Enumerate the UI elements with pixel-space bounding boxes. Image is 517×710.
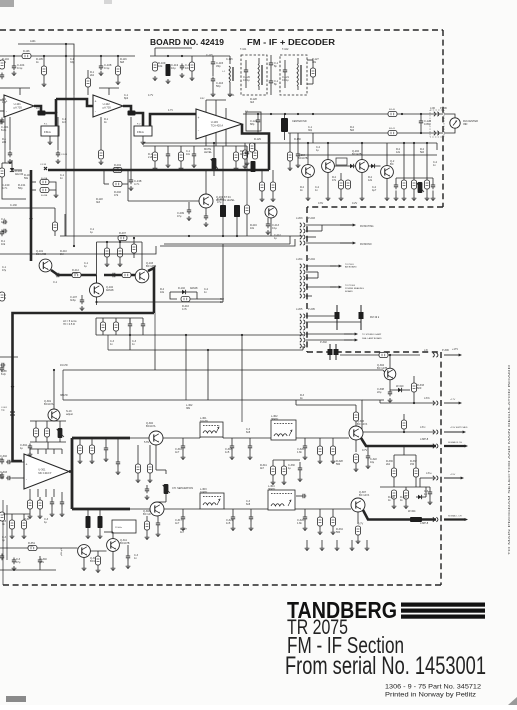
svg-text:150: 150 — [410, 463, 415, 466]
svg-text:560: 560 — [336, 463, 341, 466]
trimmer R305 — [57, 428, 64, 438]
electrolytic C211 — [234, 205, 240, 217]
svg-text:R-407: R-407 — [119, 231, 127, 235]
resistor R106 — [22, 53, 31, 58]
wires Q201 — [205, 170, 207, 194]
wire y403 to 17V out — [380, 402, 436, 404]
capacitor C114 — [180, 64, 184, 71]
svg-text:FM 19 k: FM 19 k — [370, 315, 380, 319]
svg-text:LEVEL: LEVEL — [204, 150, 213, 154]
wire meter branch — [444, 114, 455, 118]
capacitor C138 — [129, 178, 133, 185]
capacitor C145 — [3, 220, 8, 224]
wires R201 R202 — [122, 169, 128, 171]
svg-text:J-8: J-8 — [424, 348, 428, 352]
resistor R318 — [144, 521, 149, 530]
capacitor left edge y120 — [0, 118, 4, 125]
capacitor C108 0.1u — [99, 64, 103, 71]
wire detector lower rail — [288, 132, 443, 134]
capacitor C143 — [112, 273, 117, 277]
svg-text:47μ: 47μ — [16, 560, 21, 564]
wire U103 bias — [206, 99, 226, 101]
svg-text:6n8: 6n8 — [246, 431, 251, 434]
capacitor C206 — [204, 214, 208, 221]
transistor Q304 BC147B — [384, 368, 396, 380]
connector pin y403 — [433, 401, 438, 405]
ground C306 — [50, 512, 55, 517]
filter block L-302 — [271, 420, 296, 440]
svg-text:J-204: J-204 — [296, 257, 303, 261]
capacitor C131 — [166, 152, 170, 159]
svg-text:8.2p: 8.2p — [1, 372, 7, 376]
diode D101 — [10, 168, 14, 172]
wire decoder bias rail — [30, 420, 66, 422]
wire Q304 base from bus — [362, 399, 384, 401]
svg-text:4.7V: 4.7V — [148, 94, 153, 97]
ground under C138 — [129, 186, 134, 191]
ground C216 — [394, 196, 399, 201]
ground R313 — [78, 459, 83, 464]
resistor R124 — [233, 152, 238, 161]
resistor R111 — [189, 62, 194, 71]
ground R314 — [90, 459, 95, 464]
wire detector top rail — [243, 113, 443, 115]
svg-text:0.2V: 0.2V — [352, 202, 357, 205]
wire right link to muting — [289, 236, 291, 244]
wire L303 to L304 — [224, 508, 268, 510]
arrow +17V — [444, 354, 462, 357]
svg-text:2.2k: 2.2k — [148, 156, 153, 159]
connector J203 pin 4 — [300, 241, 305, 245]
ground bottom x307 — [305, 546, 310, 551]
svg-text:C-115: C-115 — [206, 54, 213, 57]
capacitor C120 — [244, 68, 248, 75]
wire under U103 rail — [143, 145, 226, 147]
capacitor left edge y368 — [0, 366, 4, 373]
wire bus y254 — [0, 246, 156, 254]
capacitor C306 — [50, 500, 54, 507]
svg-text:SIGNAL R CH: SIGNAL R CH — [448, 441, 462, 444]
resistor R336 — [391, 468, 396, 477]
thick path filter A to op2 — [56, 99, 93, 106]
left edge cut components top — [0, 87, 10, 89]
svg-text:0.01μ: 0.01μ — [243, 78, 250, 82]
svg-text:W-324: W-324 — [408, 509, 416, 513]
wire R ch to L303 — [164, 508, 200, 510]
wire A101 feed — [18, 44, 74, 95]
transistor Q206 BC147B — [265, 206, 277, 218]
dashed meter loop — [430, 110, 444, 137]
ground R324 — [318, 459, 323, 464]
resistor R335 — [401, 420, 406, 429]
diode D201 — [350, 164, 354, 168]
wire vertical x101 — [100, 56, 102, 63]
connector J204 pin 4 — [300, 282, 305, 286]
resistor R126 — [249, 143, 254, 152]
filter block L-301 — [200, 422, 223, 437]
svg-text:FM MONO: FM MONO — [360, 243, 372, 246]
svg-text:4.7n: 4.7n — [134, 182, 140, 186]
wire L302 to Q306 — [296, 437, 349, 439]
connector J203 pin 3 — [300, 235, 305, 239]
svg-text:820: 820 — [417, 386, 422, 390]
transistor Q203 BC147B — [322, 160, 335, 173]
arrow out y478 — [444, 477, 464, 480]
resistor R201 — [113, 167, 122, 172]
resistor R333 — [411, 383, 416, 392]
arrow FM MONO — [340, 242, 356, 245]
ceramic filter box F-2 FM-k — [134, 126, 152, 136]
resistor R140 — [388, 111, 397, 116]
svg-text:1M: 1M — [60, 253, 63, 256]
svg-text:47μ: 47μ — [177, 214, 182, 218]
ground C318 — [230, 455, 235, 460]
resistor R121 — [85, 78, 90, 87]
ground under filter A — [49, 136, 51, 140]
svg-text:1n5: 1n5 — [226, 521, 231, 525]
svg-text:TO STEREO LAMP: TO STEREO LAMP — [362, 333, 382, 336]
wire pin stubs J204 — [306, 271, 318, 273]
resistor R213 — [401, 180, 406, 189]
connector J204 pin 3 — [300, 276, 305, 280]
capacitor C132 — [192, 152, 196, 159]
ground under filter B — [142, 136, 144, 140]
ground C322 — [366, 464, 371, 469]
pin stubs U103 top — [205, 100, 207, 112]
connector J205 pin 6 — [300, 344, 305, 348]
ground C319b — [116, 470, 121, 475]
ground C308 — [388, 398, 393, 403]
electrolytic C309 — [86, 516, 91, 528]
svg-text:19 kHz: 19 kHz — [60, 364, 69, 367]
resistor R346 — [21, 520, 26, 529]
resistor R204 — [287, 152, 292, 161]
capacitor C340 — [126, 554, 130, 561]
svg-text:J-8 c: J-8 c — [420, 425, 426, 429]
wire muting cluster rail — [396, 177, 433, 179]
wire 38k bus 1 — [63, 369, 383, 371]
Q102 emitter parts — [96, 297, 98, 305]
ground R214 — [412, 196, 417, 201]
thick path filter B to op3 — [150, 114, 196, 126]
wire bottom left rail — [3, 513, 30, 515]
svg-text:+15V SWITCHED: +15V SWITCHED — [450, 427, 468, 429]
svg-text:R-110: R-110 — [36, 108, 43, 110]
svg-text:+17V: +17V — [452, 347, 458, 351]
arrow to AM board — [306, 265, 336, 267]
svg-text:560: 560 — [336, 531, 341, 534]
svg-text:10 kHz: 10 kHz — [200, 419, 209, 423]
ground bottom x337 — [335, 546, 340, 551]
svg-text:0.1μ: 0.1μ — [17, 66, 23, 70]
thick signal path op1 to FM-k filter F1 — [34, 106, 41, 113]
svg-text:4k7: 4k7 — [240, 153, 245, 156]
diode D102 — [182, 290, 186, 294]
resistor R109 — [152, 62, 157, 71]
svg-text:9A648: 9A648 — [190, 286, 198, 290]
ground bottom x322 — [320, 546, 325, 551]
svg-text:CH. SEPARATION: CH. SEPARATION — [172, 486, 193, 490]
filter block L-304 — [268, 490, 295, 510]
board outline dashed border bottom — [0, 584, 441, 586]
wires transistor row — [307, 143, 309, 165]
board outline dashed border right upper — [442, 30, 444, 207]
connector J106/P206 pin lower — [434, 131, 439, 135]
ground C326 — [303, 526, 308, 531]
connector J205 pin 5 — [300, 338, 305, 342]
thick path Q103 out down — [148, 268, 154, 313]
transistor Q102 9A648 — [90, 283, 104, 297]
resistor R123 — [178, 152, 183, 161]
wire Q102 connections — [96, 275, 98, 283]
connector pin SIGNAL L CH — [433, 517, 438, 521]
svg-text:BC147A: BC147A — [146, 424, 156, 428]
svg-text:R-43B: R-43B — [41, 195, 48, 197]
svg-text:J-8 e: J-8 e — [426, 471, 432, 475]
arrow to dial lamp — [344, 339, 358, 342]
capacitor C326 — [303, 515, 307, 522]
transistor Q302 BC147A — [149, 431, 163, 445]
svg-text:BC147B: BC147B — [298, 156, 308, 160]
ground C206 — [204, 222, 209, 227]
resistor R211 — [345, 180, 350, 189]
wire cluster rail — [150, 55, 196, 57]
ground R405 — [105, 262, 110, 267]
wire vertical links mid — [129, 335, 131, 350]
svg-text:BOARD NO. 42419: BOARD NO. 42419 — [150, 37, 224, 47]
resistor R338 — [391, 490, 396, 499]
svg-text:47μ: 47μ — [2, 269, 7, 272]
svg-text:TCA 420 A: TCA 420 A — [211, 123, 224, 127]
svg-text:BC 147A: BC 147A — [359, 493, 369, 497]
svg-text:150k: 150k — [72, 271, 78, 275]
svg-text:+: + — [95, 100, 97, 104]
pin stubs U103 bottom — [205, 136, 207, 146]
wire L ch to L301 — [163, 437, 200, 439]
ground R346 — [22, 534, 27, 539]
bottom left page mark — [6, 696, 26, 702]
capacitor C341 — [12, 558, 16, 565]
resistor R309 — [100, 322, 105, 331]
capacitor C30x in thick path — [10, 412, 15, 415]
capacitor C133 — [245, 150, 249, 157]
ground filter B — [141, 140, 146, 145]
ground Q310 — [82, 566, 87, 571]
svg-text:8p2: 8p2 — [124, 97, 129, 100]
svg-text:5k6: 5k6 — [350, 129, 355, 132]
wires pins to jacks — [306, 315, 337, 317]
ground R317 — [148, 478, 153, 483]
capacitor C335 — [1, 363, 6, 367]
wire R ch into Q303 — [130, 508, 150, 510]
wire to limiter — [196, 55, 230, 57]
capacitor C316 — [181, 444, 185, 451]
electrolytic C204 — [251, 161, 256, 172]
wire vertical x65 — [64, 214, 66, 236]
capacitor C314 — [156, 521, 160, 528]
svg-text:BC 147: BC 147 — [143, 512, 152, 516]
svg-text:19 kHz: 19 kHz — [115, 527, 122, 529]
board outline dashed notch top — [307, 206, 443, 208]
ground under C104 — [12, 71, 17, 76]
board outline dashed border top — [0, 29, 443, 31]
thick path vertical to Q101 — [30, 170, 33, 261]
resistor left edge y60 — [0, 60, 5, 69]
svg-text:BC 147B: BC 147B — [377, 366, 387, 370]
connector J204 pin 6 — [300, 294, 305, 298]
svg-text:47μ: 47μ — [217, 200, 222, 204]
ground R124 — [234, 166, 239, 171]
wire vertical x155 long — [154, 313, 156, 350]
coil T101 primary — [258, 64, 259, 86]
svg-text:47k: 47k — [114, 193, 119, 197]
wire vertical x54 long — [53, 369, 55, 371]
resistor R352 — [95, 556, 100, 565]
wires bottom stage — [0, 547, 28, 549]
wire vertical from rail — [43, 56, 45, 66]
capacitor C104 — [12, 64, 16, 71]
meter FM-CENTER IND — [450, 118, 460, 128]
ground R328 — [354, 467, 359, 472]
connector J205 pin 1 — [300, 314, 305, 318]
ground C107 — [80, 306, 85, 311]
ground R122 — [153, 166, 158, 171]
svg-text:0.1μ: 0.1μ — [104, 66, 110, 70]
ground R215 — [425, 196, 430, 201]
ground Q203 — [326, 196, 331, 201]
resistor R43B — [40, 187, 49, 192]
ground R213 — [402, 196, 407, 201]
svg-text:R-141: R-141 — [389, 128, 396, 130]
ground R341 — [271, 480, 276, 485]
capacitor C213 — [266, 222, 270, 229]
svg-text:J-8/P-8: J-8/P-8 — [420, 437, 429, 441]
svg-text:P-302: P-302 — [320, 340, 327, 344]
resistor R327 — [353, 412, 358, 421]
ground R325 — [331, 459, 336, 464]
ground R316 — [136, 478, 141, 483]
op-amp — [93, 95, 123, 117]
capacitor C216 — [394, 183, 398, 190]
svg-text:adjust: adjust — [66, 412, 73, 416]
connector J204 pin 5 — [300, 288, 305, 292]
ground R345 — [10, 534, 15, 539]
resistor R127 — [310, 68, 315, 77]
thick decoder output — [69, 470, 72, 473]
ground C304 — [28, 452, 33, 457]
resistor R205 — [252, 150, 257, 159]
thick path into filter box A — [45, 113, 56, 126]
resistor R351 — [28, 545, 37, 550]
wire verticals mid routing — [107, 335, 109, 350]
wire Q103 base rail — [97, 241, 143, 243]
transistor Q101 BC149B — [39, 259, 52, 272]
capacitor C116 — [211, 77, 215, 84]
wire long vertical x66 — [65, 90, 67, 236]
ground C325 — [249, 526, 254, 531]
svg-text:0.01μ: 0.01μ — [282, 78, 289, 82]
ground C105 — [8, 159, 13, 164]
ground C307 — [60, 512, 65, 517]
capacitor C141 — [56, 273, 61, 277]
resistor R43A — [40, 179, 49, 184]
capacitor C342 — [38, 558, 42, 565]
svg-text:+17V: +17V — [450, 399, 456, 401]
svg-text:μFM φ/2: μFM φ/2 — [61, 548, 63, 556]
svg-text:J-8/P-8: J-8/P-8 — [420, 521, 429, 525]
wire vertical x223 — [222, 244, 224, 302]
resistor R216 — [244, 205, 249, 214]
muting small box — [336, 158, 347, 165]
transistor Q204 BC147B — [302, 165, 315, 178]
svg-text:C-1: C-1 — [53, 280, 58, 284]
svg-text:56p: 56p — [18, 186, 23, 190]
capacitor C319b — [116, 460, 120, 467]
capacitor C124 — [256, 118, 260, 125]
connector J204 pin 2 — [300, 270, 305, 274]
left edge bottom parts — [2, 500, 4, 585]
thick audio path from detector — [48, 169, 269, 172]
svg-text:7# = 0.5 R: 7# = 0.5 R — [63, 322, 75, 326]
logo bars — [401, 603, 485, 607]
wire vertical x55 to bus — [54, 208, 56, 236]
ground C109 — [56, 159, 61, 164]
wire 19k bus upper — [96, 334, 303, 336]
thick L out — [361, 438, 436, 446]
connector J204 pin 1 — [300, 264, 305, 268]
transistor Q307 BC147A — [351, 498, 365, 512]
svg-text:+15V: +15V — [450, 474, 456, 476]
emitter parts Q306 — [355, 440, 357, 452]
ground C209 — [187, 216, 192, 221]
wire decoder top parts — [79, 437, 81, 439]
svg-text:4n7: 4n7 — [62, 121, 67, 124]
svg-text:4k7: 4k7 — [260, 467, 265, 470]
svg-text:30p: 30p — [308, 129, 313, 132]
svg-text:4.7V: 4.7V — [168, 109, 173, 112]
thick output rail vertical — [71, 438, 74, 509]
capacitor C308 — [388, 390, 392, 397]
resistor R408 — [118, 235, 127, 240]
wire vertical x186 lower — [185, 370, 187, 400]
capacitor left edge y75 — [0, 73, 4, 80]
diode D101 — [12, 169, 22, 171]
ground L101 — [228, 92, 233, 97]
ground R111 — [190, 76, 195, 81]
arrows to stereo lamp board — [306, 333, 352, 335]
resistor R208 — [270, 182, 275, 191]
ground R123 — [179, 166, 184, 171]
svg-text:P-206: P-206 — [440, 106, 447, 110]
wire center row rail — [143, 142, 300, 144]
coupling resistor R120 dark — [128, 111, 136, 116]
wire muting rail upper — [300, 142, 437, 144]
capacitor C209 — [187, 208, 191, 215]
svg-text:0.6V: 0.6V — [318, 202, 323, 205]
transistor Q205 BC147B — [381, 166, 394, 179]
ground R339 — [404, 504, 409, 509]
arrow to stereo lamp — [344, 333, 358, 336]
ground C330 — [298, 477, 303, 482]
capacitor left edge y475 — [0, 473, 4, 480]
ground R334 — [356, 539, 361, 544]
ceramic filter box F-1 FM-k — [41, 126, 59, 136]
bottom right corner mark — [508, 697, 517, 705]
svg-text:2k2: 2k2 — [90, 74, 95, 77]
resistor R332 — [379, 352, 388, 357]
wire bus to connector y236 — [60, 235, 303, 237]
svg-text:4μ7: 4μ7 — [372, 189, 377, 192]
